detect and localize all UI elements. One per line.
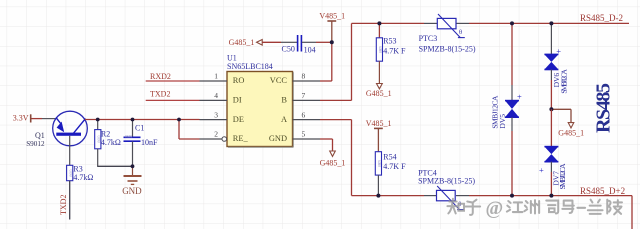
junction node DE/RE_ [177, 118, 181, 122]
wire pin 7 B up to top rail [320, 23, 352, 100]
svg-text:8: 8 [302, 72, 306, 81]
pin 4 DI [200, 91, 242, 105]
svg-text:@: @ [486, 198, 504, 219]
svg-text:104: 104 [304, 45, 316, 54]
svg-text:V485_1: V485_1 [319, 12, 345, 21]
junction node DV6 top [549, 21, 553, 25]
op-amp U1 SN65LBC184 body [227, 53, 293, 147]
wire G485_1 to C50 [262, 41, 297, 43]
pin 7 B [281, 91, 320, 105]
svg-text:RS485_D-2: RS485_D-2 [580, 13, 623, 23]
svg-text:G485_1: G485_1 [558, 128, 584, 137]
TVS diode DV7 [539, 109, 567, 195]
junction node V485_1/C50/VCC [330, 40, 334, 44]
pin 2 RE_ with bubble [200, 130, 249, 144]
svg-text:SMBJ12CA: SMBJ12CA [558, 163, 567, 190]
svg-text:+: + [539, 165, 544, 175]
svg-text:PTC3: PTC3 [419, 34, 438, 43]
svg-text:5: 5 [302, 130, 306, 139]
resistor R3 [67, 164, 94, 182]
svg-text:2: 2 [214, 130, 218, 139]
wire top rail B to RS485_D-2 [352, 22, 630, 24]
junction node at C1 top [131, 118, 135, 122]
wire RXD2 to pin 1 [146, 80, 200, 82]
svg-text:RS485_D+2: RS485_D+2 [580, 186, 625, 196]
wire R3 to TXD2 [69, 181, 71, 220]
pin 5 GND [269, 130, 320, 144]
resistor R54 [375, 152, 406, 196]
wire 3.3V to Q1 emitter [32, 118, 57, 120]
wire DE node down to RE_ [179, 120, 200, 140]
svg-text:4.7kΩ: 4.7kΩ [73, 173, 93, 182]
svg-text:1: 1 [214, 72, 218, 81]
wire C50 to V485_1 node [302, 41, 332, 43]
wire Q1 base to R3 [69, 136, 71, 166]
svg-text:RE_: RE_ [233, 134, 249, 143]
power port G485_1 left arrow [229, 38, 263, 47]
svg-text:+: + [517, 91, 522, 101]
junction node at R2 top [96, 118, 100, 122]
pin 8 VCC [270, 72, 320, 86]
junction node DV7 bottom [549, 194, 553, 198]
svg-text:GND: GND [269, 134, 287, 143]
svg-text:GND: GND [122, 186, 142, 196]
svg-text:TXD2: TXD2 [59, 195, 68, 215]
svg-text:10nF: 10nF [141, 138, 158, 147]
svg-text:DE: DE [233, 115, 244, 124]
capacitor C50 [282, 35, 316, 54]
svg-text:0805: 0805 [378, 160, 382, 167]
junction node G485_1/DV6/DV7 [549, 107, 553, 111]
svg-text:4.7K F: 4.7K F [383, 162, 406, 171]
wire TXD2 to pin 4 [146, 99, 200, 101]
svg-text:RXD2: RXD2 [150, 72, 171, 81]
resistor R2 [95, 120, 121, 167]
svg-text:SPMZB-8(15-25): SPMZB-8(15-25) [419, 44, 476, 53]
wire bottom rail A to RS485_D+2 [352, 196, 633, 229]
junction node at C1 bottom [131, 164, 135, 168]
wire R2 bottom to C1 bottom [97, 165, 132, 167]
svg-text:R53: R53 [383, 37, 396, 46]
svg-text:RS485: RS485 [593, 83, 615, 133]
svg-text:R54: R54 [383, 153, 396, 162]
svg-text:G485_1: G485_1 [229, 38, 255, 47]
transistor Q1 [26, 111, 87, 148]
ground GND [122, 166, 142, 196]
wire pin 6 A down to bottom rail [320, 120, 352, 196]
svg-text:0603: 0603 [125, 135, 132, 139]
svg-text:3.3V: 3.3V [13, 114, 29, 123]
svg-text:TXD2: TXD2 [150, 90, 170, 99]
svg-text:SPMZB-8(15-25): SPMZB-8(15-25) [418, 177, 475, 186]
watermark zhihu [447, 198, 622, 219]
svg-text:DI: DI [233, 96, 242, 105]
power port G485_1 under R53 [366, 84, 392, 98]
TVS diode DV5 [491, 23, 522, 195]
svg-text:RO: RO [233, 76, 245, 85]
svg-text:3: 3 [214, 110, 218, 119]
junction node DV5 top [510, 21, 514, 25]
svg-text:+: + [556, 46, 561, 56]
resistor R53 [376, 23, 406, 83]
svg-text:6: 6 [302, 110, 306, 119]
svg-text:SMBJ12CA: SMBJ12CA [560, 69, 569, 94]
TVS diode DV6 [544, 23, 568, 109]
svg-text:SN65LBC184: SN65LBC184 [227, 62, 273, 71]
svg-text:S9012: S9012 [26, 140, 45, 148]
svg-text:A: A [281, 115, 287, 124]
svg-text:G485_1: G485_1 [366, 89, 392, 98]
svg-text:7: 7 [302, 91, 306, 100]
svg-text:B: B [281, 96, 287, 105]
thermistor PTC4 [418, 168, 475, 209]
power port G485_1 below pin 5 [320, 151, 346, 167]
svg-text:V485_1: V485_1 [366, 119, 392, 128]
wire pin 5 GND to G485_1 [320, 139, 333, 151]
svg-text:4.7kΩ: 4.7kΩ [101, 138, 121, 147]
svg-text:4: 4 [214, 91, 218, 100]
power port V485_1 top [319, 12, 345, 43]
svg-text:4.7K F: 4.7K F [383, 46, 406, 55]
power port G485_1 right [551, 109, 584, 137]
junction node DV5 bottom [510, 194, 514, 198]
pin 3 DE [200, 110, 244, 124]
wire pin 8 VCC up to V485_1 node [320, 42, 332, 81]
power port 3.3V [13, 114, 32, 123]
svg-text:θ: θ [459, 29, 462, 36]
pin 6 A [281, 110, 320, 124]
junction node R53 top [377, 21, 381, 25]
wire Q1 collector node to DE [85, 119, 200, 121]
svg-text:VCC: VCC [270, 76, 288, 85]
svg-text:G485_1: G485_1 [320, 158, 346, 167]
svg-text:C50: C50 [282, 45, 295, 54]
pin 1 RO [200, 72, 245, 86]
svg-text:Q1: Q1 [35, 131, 45, 140]
capacitor C1 [124, 120, 159, 167]
junction node R54 bottom [376, 194, 380, 198]
svg-text:DV5: DV5 [498, 114, 507, 129]
power port V485_1 above R54 [366, 119, 392, 152]
svg-text:C1: C1 [135, 123, 144, 132]
thermistor PTC3 [419, 14, 476, 53]
